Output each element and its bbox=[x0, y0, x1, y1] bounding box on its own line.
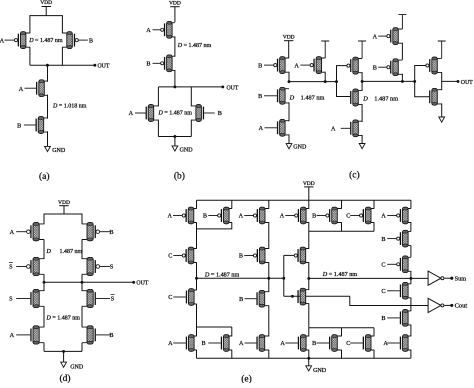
wire: mid nmos B top to rail (e) bbox=[341, 328, 343, 337]
nmos A (e) col3 bottom bbox=[262, 336, 269, 350]
node dot stage1 out mid (c) bbox=[324, 80, 327, 83]
VDD t-bar (c) stage1 pmos A bbox=[321, 41, 329, 58]
node dot stage1 out right (c) bbox=[335, 80, 338, 83]
svg-text:Cout: Cout bbox=[455, 303, 468, 310]
node dot OUT junction (a) bbox=[46, 64, 49, 67]
svg-text:1.487 nm: 1.487 nm bbox=[60, 249, 83, 255]
pmos C (e) right column bbox=[405, 257, 411, 271]
wire: stage3 nmos drain up (c) bbox=[441, 81, 443, 90]
wire: Cout-bar gate tap vertical (e) bbox=[283, 255, 285, 296]
nmos A (e) middle bottom bbox=[303, 336, 309, 350]
svg-text:D: D bbox=[46, 249, 52, 255]
svg-text:B: B bbox=[17, 122, 21, 129]
node dot Sum-bar rail right (e) bbox=[409, 277, 412, 280]
node dot rail junction (b) bbox=[173, 85, 176, 88]
wire: OUT rail down to nmos S (d) bbox=[43, 282, 45, 291]
svg-text:A: A bbox=[280, 340, 285, 347]
wire: OUT rail down to nmos Sbar (d) bbox=[81, 282, 83, 291]
svg-text:GND: GND bbox=[52, 148, 66, 154]
wire: pmos B drain to OUT rail (b) bbox=[174, 70, 176, 87]
wire: pmos C drain to Cout-bar rail (e) bbox=[196, 262, 198, 278]
wire: right branch down to nmos B (b) bbox=[190, 87, 192, 107]
wire: col1 nmos A to bottom rail (e) bbox=[196, 350, 198, 359]
svg-text:B: B bbox=[312, 340, 316, 347]
wire: Cout-bar line jog down (e) bbox=[350, 296, 428, 305]
wire: series pmos A to B (c) bbox=[401, 43, 403, 60]
nmos stage2 tap (c) bbox=[356, 90, 363, 104]
svg-text:(c): (c) bbox=[349, 169, 360, 180]
svg-text:D = 1.487 nm: D = 1.487 nm bbox=[322, 271, 358, 278]
wire: mid nmos group top rail (e) bbox=[309, 327, 374, 329]
node dot on Cout-bar gate line (e) bbox=[291, 295, 294, 298]
nmos B (c) stage1 bbox=[282, 89, 289, 103]
node dot OUT rail right (d) bbox=[81, 281, 84, 284]
wire: pmos A drain to OUT rail (a) bbox=[29, 47, 31, 65]
svg-text:B: B bbox=[239, 253, 243, 260]
nmos S (d) left bbox=[36, 291, 44, 307]
wire: top rail drop right col (e) bbox=[410, 200, 412, 208]
wire: OUT rail (b) bbox=[158, 86, 222, 88]
svg-text:B: B bbox=[381, 315, 385, 322]
svg-text:D = 1.487 nm: D = 1.487 nm bbox=[177, 43, 212, 49]
svg-text:B: B bbox=[109, 229, 113, 236]
wire: nmos B down to bottom rail (b) bbox=[190, 120, 192, 137]
nmos A (e) right column bbox=[405, 336, 411, 350]
pmos S (d) lower-right upper bbox=[82, 259, 90, 275]
node dot Sum-bar rail left (e) bbox=[307, 277, 310, 280]
svg-text:B: B bbox=[373, 64, 377, 71]
wire: right nmos series B-A (e) bbox=[410, 325, 412, 337]
pmos B (e) col3 lower bbox=[262, 249, 269, 263]
wire: bottom rail (d) bbox=[44, 350, 82, 352]
wire: pmos S drain to OUT rail (d) bbox=[81, 274, 83, 282]
wire: col1 down to pmos C (e) bbox=[196, 229, 198, 249]
ground symbol (c) stage1 bbox=[288, 134, 290, 143]
node dot series branch join (c) bbox=[401, 80, 404, 83]
svg-text:B: B bbox=[258, 62, 262, 69]
wire: col3 nmos B to nmos A (e) bbox=[268, 305, 270, 336]
wire: top rail drop col3 (e) bbox=[268, 200, 270, 209]
node dot bottom rail (d) bbox=[62, 350, 65, 353]
svg-text:B: B bbox=[381, 236, 385, 243]
wire: nmos A to nmos B (a) bbox=[47, 95, 49, 119]
svg-text:(b): (b) bbox=[174, 171, 185, 182]
wire: gated pmos drain to Sum-bar rail (e) bbox=[308, 262, 310, 278]
wire: nmos Sbar to nmos B (d) bbox=[81, 306, 83, 327]
wire: top rail drop col2 (e) bbox=[231, 200, 233, 209]
svg-text:B: B bbox=[312, 213, 316, 220]
wire: stage2 nmos to nmos A (c) bbox=[361, 104, 363, 122]
node dot OUT terminal (a) bbox=[93, 64, 96, 67]
svg-text:1.487 nm: 1.487 nm bbox=[374, 95, 398, 102]
ground symbol (a) bbox=[47, 131, 49, 146]
svg-text:B: B bbox=[258, 93, 262, 100]
wire: pmos B drain to OUT rail (a) bbox=[61, 47, 63, 65]
wire: stage1 output rail (c) bbox=[289, 81, 337, 83]
VDD t-bar (c) series pmos branch bbox=[398, 15, 406, 29]
svg-text:C: C bbox=[346, 213, 350, 220]
node dot Cout-bar rail mid (e) bbox=[267, 277, 270, 280]
svg-text:(d): (d) bbox=[59, 373, 70, 383]
svg-text:D = 1.487 nm: D = 1.487 nm bbox=[46, 316, 81, 322]
wire: mid nmos C to bottom rail (e) bbox=[373, 350, 375, 359]
svg-text:A: A bbox=[331, 126, 336, 133]
wire: stage3 nmos source down (c) bbox=[441, 103, 443, 112]
VDD t-bar (c) stage2 tap pmos bbox=[358, 41, 366, 58]
svg-text:D: D bbox=[362, 95, 368, 102]
wire: Cout-bar node rail (e) bbox=[197, 277, 284, 279]
wire: col1 nmos A top to pair rail (e) bbox=[196, 327, 198, 336]
pmos A (e) right column bbox=[405, 209, 411, 223]
nmos B (e) col3 upper bbox=[262, 292, 269, 306]
svg-text:B: B bbox=[89, 37, 93, 44]
svg-text:VDD: VDD bbox=[58, 200, 70, 206]
nmos stage3 inverter (c) bbox=[435, 90, 442, 104]
pmos C (e) col1 lower bbox=[191, 249, 197, 263]
svg-text:B: B bbox=[202, 340, 206, 347]
nmos Cout-bar gated (e) bbox=[303, 290, 309, 304]
wire: stage2 output rail (c) bbox=[362, 80, 415, 82]
wire: right pmos series B-C (e) bbox=[410, 245, 412, 257]
node dot OUT rail left (d) bbox=[43, 281, 46, 284]
svg-text:B: B bbox=[239, 296, 243, 303]
pmos B (d) upper-right bbox=[82, 224, 90, 240]
wire: pmos Sbar drain to OUT rail (d) bbox=[43, 274, 45, 282]
wire: midC pmos drain drop (e) bbox=[373, 222, 375, 231]
svg-text:D = 1.487 nm: D = 1.487 nm bbox=[204, 272, 240, 279]
wire: stage2 pmos drain down (c) bbox=[361, 72, 363, 81]
svg-text:A: A bbox=[381, 213, 386, 220]
pmos B (c) series branch bbox=[396, 60, 403, 74]
pmos B (a) right bbox=[62, 33, 69, 47]
wire: stage1 nmos B to nmos A (c) bbox=[288, 102, 290, 121]
svg-text:C: C bbox=[168, 253, 172, 260]
svg-text:GND: GND bbox=[70, 364, 84, 370]
svg-text:C: C bbox=[168, 294, 172, 301]
ground symbol (c) stage2 bbox=[361, 135, 363, 144]
pmos B (e) col2 bbox=[226, 209, 232, 223]
wire: Cout-bar rail down to col1 nmos C (e) bbox=[196, 278, 198, 290]
inverter Cout (e) bbox=[428, 298, 441, 312]
node dot Sum (e) bbox=[450, 277, 453, 280]
nmos B (e) middle bottom bbox=[335, 336, 342, 350]
wire: nmos S to nmos A (d) bbox=[43, 306, 45, 327]
wire: right pmos C to Sum-bar rail (e) bbox=[410, 271, 412, 278]
svg-text:A: A bbox=[280, 213, 285, 220]
svg-text:OUT: OUT bbox=[136, 281, 148, 287]
VDD t-bar (c) stage3 bbox=[438, 41, 446, 58]
pmos A (c) series branch bbox=[396, 29, 403, 43]
wire: col2 nmos B top to pair rail (e) bbox=[231, 327, 233, 336]
wire: top rail drop midC (e) bbox=[373, 200, 375, 209]
wire: pmos A to pmos B (b) bbox=[174, 36, 176, 56]
wire: col1-col2 pair bottom rail (e) bbox=[197, 222, 232, 229]
pmos A (a) left bbox=[23, 33, 30, 47]
nmos A (c) stage2 series bbox=[356, 121, 363, 135]
ground symbol (d) bbox=[63, 351, 65, 362]
wire: top rail drop midB (e) bbox=[341, 200, 343, 209]
svg-text:GND: GND bbox=[293, 145, 307, 151]
wire: Sum inverter output (e) bbox=[444, 277, 451, 279]
nmos A (d) bottom-left bbox=[36, 327, 44, 343]
svg-text:VDD: VDD bbox=[283, 34, 295, 40]
nmos A (c) stage1 bbox=[282, 121, 289, 135]
svg-text:GND: GND bbox=[313, 368, 327, 374]
svg-text:A: A bbox=[239, 340, 244, 347]
wire: gated nmos down to mid nmos rail (e) bbox=[308, 303, 310, 328]
pmos stage2 tap (c) bbox=[356, 59, 363, 73]
svg-text:C: C bbox=[381, 262, 385, 269]
wire: nmos A down to bottom rail (b) bbox=[157, 120, 159, 137]
wire: mid nmos B to bottom rail (e) bbox=[341, 350, 343, 359]
svg-text:D = 1.018 nm: D = 1.018 nm bbox=[52, 104, 87, 110]
wire: bottom rail (b) bbox=[158, 136, 191, 138]
svg-text:OUT: OUT bbox=[227, 86, 239, 92]
wire: VDD top rail (d) bbox=[44, 214, 82, 224]
wire: series pmos B drain down (c) bbox=[401, 74, 403, 82]
nmos A (e) col1 bottom bbox=[191, 336, 196, 350]
inverter Sum (e) bbox=[428, 271, 441, 285]
svg-text:OUT: OUT bbox=[461, 80, 473, 86]
wire: pmos B to pmos S (d) bbox=[81, 239, 83, 259]
wire: top rail drop col1 (e) bbox=[196, 200, 198, 209]
wire: gated pmos top to mid rail (e) bbox=[308, 231, 310, 249]
svg-text:(a): (a) bbox=[39, 171, 50, 182]
svg-text:S: S bbox=[111, 296, 115, 303]
wire: stage1 pmos A drain down (c) bbox=[324, 72, 326, 82]
wire: midA pmos drain drop (e) bbox=[308, 222, 310, 231]
wire: OUT line (c) bbox=[442, 80, 458, 82]
svg-text:A: A bbox=[10, 229, 15, 236]
wire: col2 nmos B to bottom rail (e) bbox=[231, 350, 233, 359]
wire: midB pmos drain drop (e) bbox=[341, 222, 343, 231]
svg-text:Sum: Sum bbox=[455, 275, 467, 282]
wire: OUT rail down to nmos A (a) bbox=[47, 65, 49, 82]
pmos B (e) middle group bbox=[335, 209, 342, 223]
node dot bottom rail GND (e) bbox=[307, 357, 310, 360]
svg-text:A: A bbox=[129, 110, 134, 117]
nmos B (e) col2 bottom bbox=[226, 336, 232, 350]
wire: stage3 gate tap vertical (c) bbox=[415, 66, 430, 97]
svg-text:C: C bbox=[381, 288, 385, 295]
pmos A (d) upper-left bbox=[36, 224, 44, 240]
wire: pmos A to pmos Sbar (d) bbox=[43, 239, 45, 259]
pmos A (c) stage1 bbox=[319, 58, 325, 72]
svg-text:(e): (e) bbox=[241, 373, 252, 383]
wire: stage2 gate tap vertical (c) bbox=[337, 66, 351, 97]
svg-text:D: D bbox=[289, 94, 295, 101]
node dot OUT (c) bbox=[457, 80, 460, 83]
wire: bottom GND rail (e) bbox=[197, 357, 411, 359]
svg-text:S: S bbox=[9, 264, 13, 271]
wire: stage3 pmos drain down (c) bbox=[441, 72, 443, 81]
svg-text:A: A bbox=[19, 86, 24, 93]
svg-text:A: A bbox=[167, 213, 172, 220]
nmos C (e) middle bottom bbox=[368, 336, 374, 350]
svg-text:VDD: VDD bbox=[40, 0, 52, 6]
pmos Sbar (d) lower-left upper bbox=[36, 259, 44, 275]
wire: gated nmos top to Sum-bar rail (e) bbox=[308, 278, 310, 290]
wire: right nmos A to bottom rail (e) bbox=[410, 350, 412, 359]
wire: stage1 pmos B drain down (c) bbox=[288, 72, 290, 82]
pmos C (e) middle group bbox=[368, 209, 374, 223]
nmos B (d) bottom-right bbox=[82, 327, 90, 343]
nmos B (b) parallel right bbox=[191, 106, 198, 120]
svg-text:A: A bbox=[0, 37, 5, 44]
svg-text:D = 1.487 nm: D = 1.487 nm bbox=[158, 111, 193, 117]
pmos stage3 inverter (c) bbox=[435, 58, 442, 72]
svg-text:B: B bbox=[109, 332, 113, 339]
wire: OUT rail (a) bbox=[30, 64, 95, 66]
nmos Sbar (d) right bbox=[82, 291, 90, 307]
pmos B (b) series bottom bbox=[169, 56, 175, 70]
pmos A (e) col1 bbox=[191, 209, 197, 223]
nmos C (e) right column bbox=[405, 284, 411, 298]
wire: mid nmos A top to rail (e) bbox=[308, 328, 310, 337]
svg-text:A: A bbox=[294, 62, 299, 69]
wire: nmos B down to bottom rail (d) bbox=[81, 343, 83, 352]
wire: VDD top rail (e) bbox=[197, 199, 411, 201]
wire: right nmos series C-B (e) bbox=[410, 298, 412, 312]
node dot stage2 out left (c) bbox=[361, 80, 364, 83]
svg-text:A: A bbox=[373, 33, 378, 40]
svg-text:VDD: VDD bbox=[169, 0, 181, 6]
wire: col1 nmos C to pair rail (e) bbox=[196, 304, 198, 327]
svg-text:S: S bbox=[9, 296, 13, 303]
svg-text:S: S bbox=[110, 264, 114, 271]
pmos B (e) right column bbox=[405, 232, 411, 246]
svg-text:B: B bbox=[203, 213, 207, 220]
ground symbol (e) bbox=[308, 358, 310, 366]
wire: Sum-bar rail (e) bbox=[309, 277, 428, 279]
ground symbol (c) stage3 bbox=[441, 112, 443, 117]
wire: mid nmos C top to rail (e) bbox=[373, 328, 375, 337]
pmos Cout-bar gated (e) bbox=[303, 249, 309, 263]
pmos B (c) stage1 bbox=[282, 58, 289, 72]
nmos C (e) col1 bbox=[191, 290, 196, 304]
wire: nmos A down to bottom rail (d) bbox=[43, 343, 45, 352]
wire: mid nmos A to bottom rail (e) bbox=[308, 350, 310, 359]
node dot OUT terminal (b) bbox=[221, 85, 224, 88]
svg-text:A: A bbox=[146, 27, 151, 34]
svg-text:A: A bbox=[239, 213, 244, 220]
node dot Cout (e) bbox=[450, 304, 453, 307]
node dot Cout-bar rail right (e) bbox=[282, 277, 285, 280]
wire: stage2 nmos drain up (c) bbox=[361, 81, 363, 91]
node dot OUT terminal (d) bbox=[132, 281, 135, 284]
node dot Cout-bar rail left (e) bbox=[195, 277, 198, 280]
svg-text:A: A bbox=[383, 340, 388, 347]
ground symbol (b) bbox=[174, 137, 176, 146]
pmos A (e) middle group bbox=[303, 209, 309, 223]
node dot stage3 gate tap (c) bbox=[413, 80, 416, 83]
node dot bottom rail (b) bbox=[173, 135, 176, 138]
wire: col3 nmos A to bottom rail (e) bbox=[268, 350, 270, 359]
wire: col3 pmos B drain to Cout-bar rail (e) bbox=[268, 262, 270, 278]
wire: right nmos C top to Sum-bar rail (e) bbox=[410, 278, 412, 284]
svg-text:GND: GND bbox=[180, 148, 194, 154]
wire: col1-col2 nmos pair top rail (e) bbox=[197, 326, 232, 328]
nmos A (a) series top bbox=[42, 81, 48, 95]
svg-text:VDD: VDD bbox=[303, 181, 315, 187]
wire: tap to pmos gate (e) bbox=[284, 254, 295, 256]
svg-text:B: B bbox=[146, 61, 150, 68]
wire: VDD top rail (a) bbox=[30, 16, 63, 34]
svg-text:C: C bbox=[346, 340, 350, 347]
wire: right pmos series A-B (e) bbox=[410, 222, 412, 231]
pmos A (b) series top bbox=[169, 23, 175, 37]
wire: Cout inverter output (e) bbox=[444, 304, 451, 306]
pmos A (e) col3 bbox=[262, 209, 269, 223]
nmos A (b) parallel left bbox=[151, 106, 158, 120]
wire: col3 series pmos A to B (e) bbox=[268, 222, 270, 249]
wire: OUT rail (d) bbox=[44, 281, 134, 283]
wire: left branch down to nmos A (b) bbox=[157, 87, 159, 107]
wire: top rail drop midA (e) bbox=[308, 200, 310, 209]
nmos B (a) series bottom bbox=[41, 118, 48, 132]
svg-text:OUT: OUT bbox=[98, 64, 110, 70]
nmos B (e) right column bbox=[405, 311, 411, 325]
svg-text:A: A bbox=[168, 340, 173, 347]
svg-text:D = 1.487 nm: D = 1.487 nm bbox=[28, 38, 63, 44]
svg-text:B: B bbox=[218, 110, 222, 117]
svg-text:A: A bbox=[259, 125, 264, 132]
wire: Cout-bar line through nmos gate (e) bbox=[284, 295, 350, 297]
svg-text:1.487 nm: 1.487 nm bbox=[301, 94, 325, 101]
wire: mid pmos group bottom rail (e) bbox=[309, 230, 374, 232]
node dot stage1 out left (c) bbox=[288, 80, 291, 83]
svg-text:A: A bbox=[10, 332, 15, 339]
wire: Cout-bar rail down to col3 nmos B (e) bbox=[268, 278, 270, 292]
